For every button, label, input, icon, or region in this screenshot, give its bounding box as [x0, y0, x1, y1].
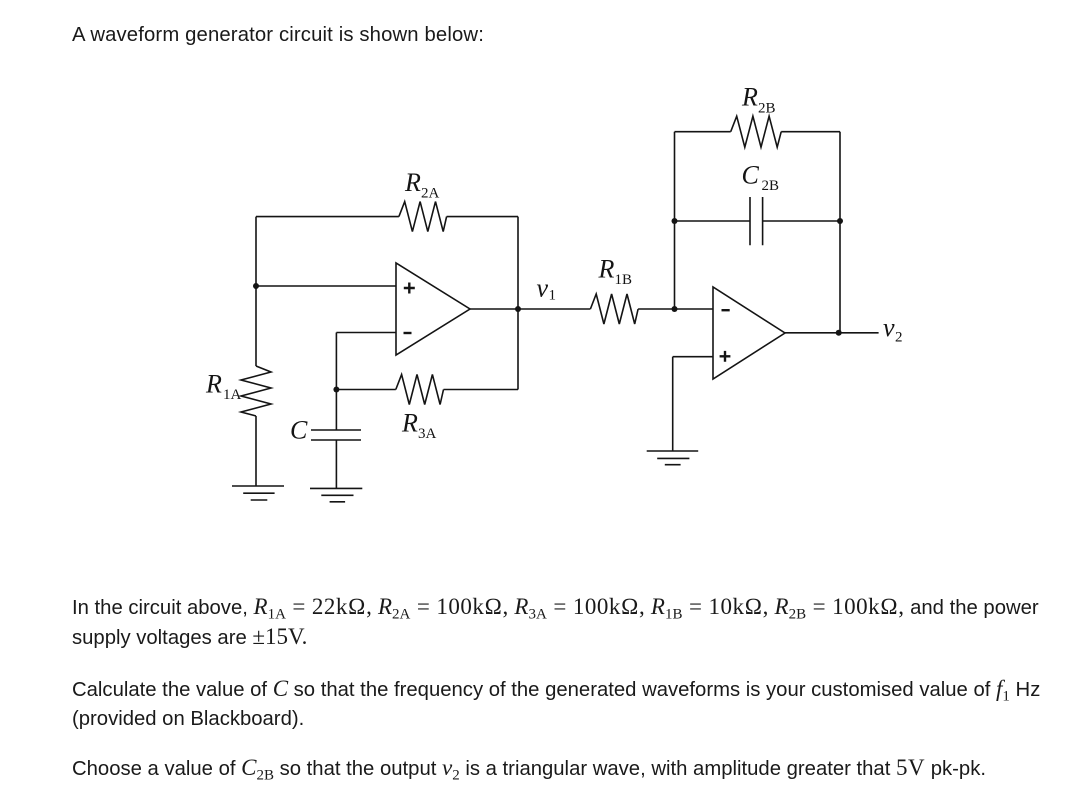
wire: left feedback rail B stage	[674, 132, 676, 309]
node E (left C2B junction)	[672, 218, 678, 224]
wire: top feedback A (left rail top to R2A)	[256, 216, 399, 218]
node A (junction left rail / + input)	[253, 283, 259, 289]
svg-text:2A: 2A	[421, 186, 440, 202]
wire: top left to R2B	[675, 131, 731, 133]
svg-text:1: 1	[549, 288, 557, 304]
resistor R1A	[241, 366, 271, 416]
wire: + input down to ground	[672, 357, 674, 451]
svg-text:R: R	[598, 254, 615, 283]
U1 plus sign	[404, 283, 415, 294]
wire: node B down to capacitor C	[335, 390, 337, 431]
svg-text:2B: 2B	[758, 100, 776, 116]
svg-text:2: 2	[895, 330, 903, 346]
capacitor C2B plates	[750, 197, 763, 245]
paragraph 3	[72, 753, 986, 791]
wire: R1B to op-amp U2 inverting input	[638, 308, 713, 310]
ground (under R1A)	[232, 486, 284, 500]
wire: left rail	[255, 217, 257, 366]
wire: non-inverting input op-amp U1	[256, 285, 396, 287]
svg-text:1B: 1B	[615, 272, 633, 288]
wire: C2B right lead	[763, 220, 840, 222]
svg-text:R: R	[404, 168, 421, 197]
wire: right rail down to C2B node	[839, 132, 841, 221]
capacitor C plates	[311, 430, 361, 440]
resistor R1B	[590, 294, 638, 324]
node D (junction R1B / feedback)	[672, 306, 678, 312]
U1 minus sign	[404, 332, 412, 334]
wire: right rail bottom up to output node	[517, 309, 519, 390]
node B (junction C / R3A)	[333, 387, 339, 393]
resistor R2B	[731, 116, 781, 147]
wire: node B to R3A	[336, 389, 395, 391]
svg-text:R: R	[205, 369, 222, 398]
paragraph 2	[72, 674, 1040, 712]
svg-text:C: C	[742, 161, 760, 190]
wire: right rail down to output node	[517, 217, 519, 309]
wire: inverting input op-amp U1	[336, 332, 396, 334]
node G (output junction v2)	[836, 330, 842, 336]
wire: R3A to right rail	[444, 389, 519, 391]
op-amp U1	[396, 263, 470, 355]
wire: U1 output to R1B	[470, 308, 590, 310]
resistor R3A	[396, 375, 444, 405]
node C (U1 output junction)	[515, 306, 521, 312]
heading text	[72, 20, 484, 50]
svg-text:3A: 3A	[418, 426, 437, 442]
wire: capacitor C to ground	[335, 440, 337, 488]
node F (right C2B junction)	[837, 218, 843, 224]
svg-text:C: C	[290, 416, 308, 445]
wire: U2 output	[785, 332, 879, 334]
U2 plus sign	[720, 351, 731, 362]
resistor R2A	[399, 202, 447, 232]
wire: U2 non-inverting input	[673, 356, 713, 358]
svg-text:R: R	[741, 83, 758, 112]
svg-text:v: v	[537, 274, 549, 303]
ground (under U2 + input)	[647, 451, 699, 465]
U2 minus sign	[722, 309, 730, 311]
op-amp U2	[713, 287, 785, 379]
svg-text:1A: 1A	[223, 387, 242, 403]
wire: R2B to right rail	[781, 131, 840, 133]
svg-text:2B: 2B	[762, 178, 780, 194]
wire: R2A to right rail	[447, 216, 518, 218]
ground (under capacitor C)	[310, 488, 362, 501]
wire: R1A to ground	[255, 416, 257, 486]
svg-text:R: R	[401, 408, 418, 437]
wire: C2B left lead	[675, 220, 751, 222]
paragraph 1	[72, 592, 1039, 630]
wire: right rail down to output v2	[839, 221, 841, 333]
wire: inverting input down to node B	[335, 333, 337, 390]
svg-text:v: v	[883, 313, 895, 342]
